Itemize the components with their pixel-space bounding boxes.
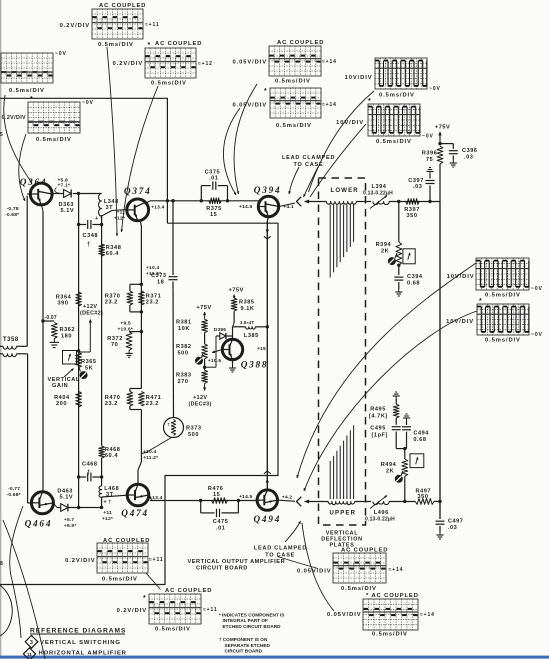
svg-text:10V/DIV: 10V/DIV xyxy=(336,120,364,126)
svg-text:2K: 2K xyxy=(386,469,394,475)
svg-text:~0V: ~0V xyxy=(422,134,434,140)
svg-text:10V/DIV: 10V/DIV xyxy=(447,274,475,280)
svg-text:C494: C494 xyxy=(413,431,429,437)
svg-text:CIRCUIT BOARD: CIRCUIT BOARD xyxy=(196,566,248,572)
svg-text:~0V: ~0V xyxy=(531,286,543,292)
svg-text:3: 3 xyxy=(30,640,33,646)
svg-text:.03: .03 xyxy=(413,184,422,190)
svg-text:≈+14: ≈+14 xyxy=(322,59,337,65)
svg-text:≈+11: ≈+11 xyxy=(149,557,164,563)
svg-text:0.5ms/DIV: 0.5ms/DIV xyxy=(341,586,377,592)
svg-text:180: 180 xyxy=(61,334,72,340)
svg-text:15: 15 xyxy=(210,212,217,218)
svg-text:+5.8: +5.8 xyxy=(58,178,69,184)
svg-text:11: 11 xyxy=(27,652,32,657)
svg-text:5.1V: 5.1V xyxy=(61,208,75,214)
svg-text:200: 200 xyxy=(56,401,67,407)
svg-text:INTEGRAL PART OF: INTEGRAL PART OF xyxy=(223,618,269,623)
svg-text:0.5ms/DIV: 0.5ms/DIV xyxy=(485,338,521,344)
svg-text:0.68: 0.68 xyxy=(407,281,420,287)
svg-text:+12V: +12V xyxy=(83,304,97,310)
svg-text:0.5ms/DIV: 0.5ms/DIV xyxy=(151,81,187,87)
svg-text:* AC COUPLED: * AC COUPLED xyxy=(366,593,419,599)
svg-text:60.4: 60.4 xyxy=(105,453,118,459)
svg-text:† COMPONENT IS ON: † COMPONENT IS ON xyxy=(219,637,268,642)
svg-text:*: * xyxy=(368,98,371,105)
svg-text:0.5ms/DIV: 0.5ms/DIV xyxy=(376,139,412,145)
svg-text:≈+14: ≈+14 xyxy=(322,102,337,108)
svg-text:SEPARATE ETCHED: SEPARATE ETCHED xyxy=(225,643,271,648)
svg-text:C373: C373 xyxy=(151,273,167,279)
svg-text:≈+14: ≈+14 xyxy=(389,567,404,573)
svg-text:(DEC#3): (DEC#3) xyxy=(189,402,212,408)
svg-text:8: 8 xyxy=(0,561,3,567)
svg-text:AC COUPLED: AC COUPLED xyxy=(103,538,150,544)
svg-text:*: * xyxy=(479,298,482,305)
svg-text:R495: R495 xyxy=(370,407,386,413)
svg-text:.03: .03 xyxy=(448,525,457,531)
svg-text:+10.4: +10.4 xyxy=(146,265,159,271)
svg-text:*: * xyxy=(143,595,146,602)
svg-text:0.13-0.22μH: 0.13-0.22μH xyxy=(365,517,395,523)
svg-text:0.5ms/DIV: 0.5ms/DIV xyxy=(98,42,134,48)
svg-text:L394: L394 xyxy=(372,184,387,190)
svg-text:+7.1*: +7.1* xyxy=(58,183,71,189)
svg-text:VERTICAL SWITCHING: VERTICAL SWITCHING xyxy=(40,640,121,646)
svg-text:AC COUPLED: AC COUPLED xyxy=(155,41,202,47)
svg-text:VERTICAL OUTPUT AMPLIFIER: VERTICAL OUTPUT AMPLIFIER xyxy=(188,559,286,565)
svg-text:T: T xyxy=(168,422,171,427)
svg-text:0.5ms/DIV: 0.5ms/DIV xyxy=(276,123,312,129)
svg-text:≈+14: ≈+14 xyxy=(420,612,435,618)
svg-text:0.5ms/DIV: 0.5ms/DIV xyxy=(275,79,311,85)
svg-text:PLATES: PLATES xyxy=(329,543,354,549)
svg-text:+6.9*: +6.9* xyxy=(64,523,77,529)
svg-text:GAIN: GAIN xyxy=(52,383,68,389)
svg-text:* INDICATES COMPONENT IS: * INDICATES COMPONENT IS xyxy=(219,613,285,618)
svg-text:18: 18 xyxy=(157,280,164,286)
svg-text:0.05V/DIV: 0.05V/DIV xyxy=(232,103,267,109)
svg-text:350: 350 xyxy=(407,213,418,219)
svg-text:500: 500 xyxy=(178,351,189,357)
svg-text:C396: C396 xyxy=(462,148,478,154)
svg-text:Q394: Q394 xyxy=(254,185,282,195)
svg-text:.01: .01 xyxy=(209,176,218,182)
svg-text:REFERENCE DIAGRAMS: REFERENCE DIAGRAMS xyxy=(30,627,126,634)
svg-text:0.13-0.22μH: 0.13-0.22μH xyxy=(363,191,393,197)
svg-text:*: * xyxy=(148,42,151,49)
svg-text:75: 75 xyxy=(426,157,433,163)
svg-text:2K: 2K xyxy=(381,249,389,255)
svg-text:5.1V: 5.1V xyxy=(60,495,74,501)
svg-text:+9.5: +9.5 xyxy=(120,321,131,327)
svg-text:+ †: + † xyxy=(104,500,112,506)
svg-text:+75V: +75V xyxy=(435,125,450,131)
svg-text:+12V: +12V xyxy=(193,395,207,401)
svg-text:-0.68*: -0.68* xyxy=(7,492,21,498)
svg-text:≈+11: ≈+11 xyxy=(203,607,218,613)
svg-text:CIRCUIT BOARD: CIRCUIT BOARD xyxy=(225,649,263,654)
svg-text:0.5ms/DIV: 0.5ms/DIV xyxy=(379,93,415,99)
svg-text:23.2: 23.2 xyxy=(105,300,118,306)
svg-text:R476: R476 xyxy=(208,486,224,492)
svg-text:C475: C475 xyxy=(213,519,229,525)
svg-text:†: † xyxy=(87,470,91,476)
svg-text:L385: L385 xyxy=(244,333,259,339)
svg-text:Q474: Q474 xyxy=(121,508,149,518)
svg-text:3T: 3T xyxy=(106,205,114,211)
svg-text:Q388: Q388 xyxy=(241,360,269,370)
svg-text:LOWER: LOWER xyxy=(331,188,359,194)
svg-text:-0.68*: -0.68* xyxy=(5,212,19,218)
svg-text:+75V: +75V xyxy=(229,288,244,294)
svg-text:0.5ms/DIV: 0.5ms/DIV xyxy=(36,137,72,143)
svg-text:ETCHED CIRCUIT BOARD: ETCHED CIRCUIT BOARD xyxy=(223,624,282,629)
svg-text:C497: C497 xyxy=(448,519,464,525)
svg-text:0.05V/DIV: 0.05V/DIV xyxy=(232,60,267,66)
svg-text:~0V: ~0V xyxy=(55,51,67,57)
svg-text:≈+12: ≈+12 xyxy=(198,61,213,67)
svg-text:AC COUPLED: AC COUPLED xyxy=(165,588,212,594)
svg-text:R365: R365 xyxy=(81,359,97,365)
svg-text:Q464: Q464 xyxy=(25,519,53,529)
svg-text:+11.2*: +11.2* xyxy=(143,455,158,461)
svg-text:≈+11: ≈+11 xyxy=(145,22,160,28)
svg-text:0.5ms/DIV: 0.5ms/DIV xyxy=(9,88,45,94)
svg-text:C495: C495 xyxy=(370,426,386,432)
svg-text:0.68: 0.68 xyxy=(413,437,426,443)
svg-text:~0V: ~0V xyxy=(429,86,441,92)
svg-text:0.2V/DIV: 0.2V/DIV xyxy=(60,23,90,29)
svg-text:T358: T358 xyxy=(3,337,19,343)
svg-text:10V/DIV: 10V/DIV xyxy=(446,319,474,325)
svg-text:AC COUPLED: AC COUPLED xyxy=(99,3,146,9)
svg-text:10K: 10K xyxy=(178,326,190,332)
svg-text:+13.4: +13.4 xyxy=(151,205,164,211)
svg-text:350: 350 xyxy=(418,494,429,500)
svg-text:C468: C468 xyxy=(82,462,98,468)
svg-text:R383: R383 xyxy=(176,373,192,379)
svg-text:R373: R373 xyxy=(186,426,202,432)
svg-text:0.5ms/DIV: 0.5ms/DIV xyxy=(102,577,138,583)
svg-text:R396: R396 xyxy=(422,151,438,157)
svg-text:[1pF]: [1pF] xyxy=(372,433,388,439)
svg-text:R385: R385 xyxy=(239,300,255,306)
svg-text:23.2: 23.2 xyxy=(146,300,159,306)
svg-text:*: * xyxy=(30,96,33,103)
svg-text:+5.7: +5.7 xyxy=(64,517,75,523)
svg-text:R381: R381 xyxy=(176,320,192,326)
svg-text:AC COUPLED: AC COUPLED xyxy=(277,40,324,46)
svg-text:0.2V/DIV: 0.2V/DIV xyxy=(113,61,143,67)
svg-text:D386: D386 xyxy=(214,327,226,333)
svg-text:+11: +11 xyxy=(103,510,112,516)
svg-text:10V/DIV: 10V/DIV xyxy=(345,75,373,81)
svg-text:L496: L496 xyxy=(374,510,389,516)
svg-text:270: 270 xyxy=(178,379,189,385)
svg-text:LEAD CLAMPED: LEAD CLAMPED xyxy=(254,545,307,551)
svg-text:15: 15 xyxy=(213,492,220,498)
svg-text:-0.78: -0.78 xyxy=(7,206,19,212)
svg-text:+10.6: +10.6 xyxy=(208,358,221,364)
svg-text:+12*: +12* xyxy=(102,516,113,522)
svg-text:+14.5: +14.5 xyxy=(239,204,252,210)
svg-text:+15: +15 xyxy=(257,346,266,352)
svg-text:70: 70 xyxy=(111,342,118,348)
svg-text:+4.2: +4.2 xyxy=(282,495,293,501)
svg-text:R382: R382 xyxy=(176,344,192,350)
svg-text:*: * xyxy=(264,88,267,95)
svg-text:C348: C348 xyxy=(83,233,99,239)
svg-text:†: † xyxy=(87,242,91,248)
svg-text:+14.5: +14.5 xyxy=(239,494,252,500)
svg-text:23.2: 23.2 xyxy=(105,401,118,407)
svg-text:390: 390 xyxy=(58,301,69,307)
svg-text:0.2V/DIV: 0.2V/DIV xyxy=(117,608,147,614)
svg-text:[4.7K]: [4.7K] xyxy=(369,414,388,420)
svg-text:R394: R394 xyxy=(376,242,392,248)
svg-text:R362: R362 xyxy=(60,327,76,333)
svg-text:UPPER: UPPER xyxy=(330,511,357,517)
svg-text:0.2V/DIV: 0.2V/DIV xyxy=(2,115,26,121)
svg-text:0.5ms/DIV: 0.5ms/DIV xyxy=(372,632,408,638)
svg-text:500: 500 xyxy=(188,432,199,438)
svg-text:R494: R494 xyxy=(381,462,397,468)
svg-text:3.5≈4T: 3.5≈4T xyxy=(240,320,254,325)
svg-text:HORIZONTAL AMPLIFIER: HORIZONTAL AMPLIFIER xyxy=(39,651,127,657)
svg-text:LEAD CLAMPED: LEAD CLAMPED xyxy=(282,155,335,161)
svg-text:+75V: +75V xyxy=(196,305,211,311)
svg-text:0.05V/DIV: 0.05V/DIV xyxy=(327,612,362,618)
svg-text:~0V: ~0V xyxy=(82,100,94,106)
svg-text:Q364: Q364 xyxy=(20,177,48,187)
svg-text:0.05V/DIV: 0.05V/DIV xyxy=(297,569,332,575)
svg-text:0.5ms/DIV: 0.5ms/DIV xyxy=(485,293,521,299)
svg-text:.03: .03 xyxy=(464,155,473,161)
svg-text:0.2V/DIV: 0.2V/DIV xyxy=(65,558,95,564)
svg-text:0.5ms/DIV: 0.5ms/DIV xyxy=(155,627,191,633)
svg-text:~0V: ~0V xyxy=(531,332,543,338)
svg-text:-0.07: -0.07 xyxy=(45,315,57,321)
svg-text:C394: C394 xyxy=(407,274,423,280)
svg-text:9.1K: 9.1K xyxy=(241,306,255,312)
svg-text:60.4: 60.4 xyxy=(106,251,119,257)
svg-text:5K: 5K xyxy=(85,366,93,372)
svg-text:5: 5 xyxy=(0,132,3,138)
svg-text:23.2: 23.2 xyxy=(146,401,159,407)
svg-text:+ †: + † xyxy=(95,216,103,222)
svg-text:Q494: Q494 xyxy=(254,514,282,524)
svg-text:(DEC#2): (DEC#2) xyxy=(80,311,103,317)
svg-text:.01: .01 xyxy=(216,526,225,532)
svg-text:-0.77: -0.77 xyxy=(8,486,20,492)
